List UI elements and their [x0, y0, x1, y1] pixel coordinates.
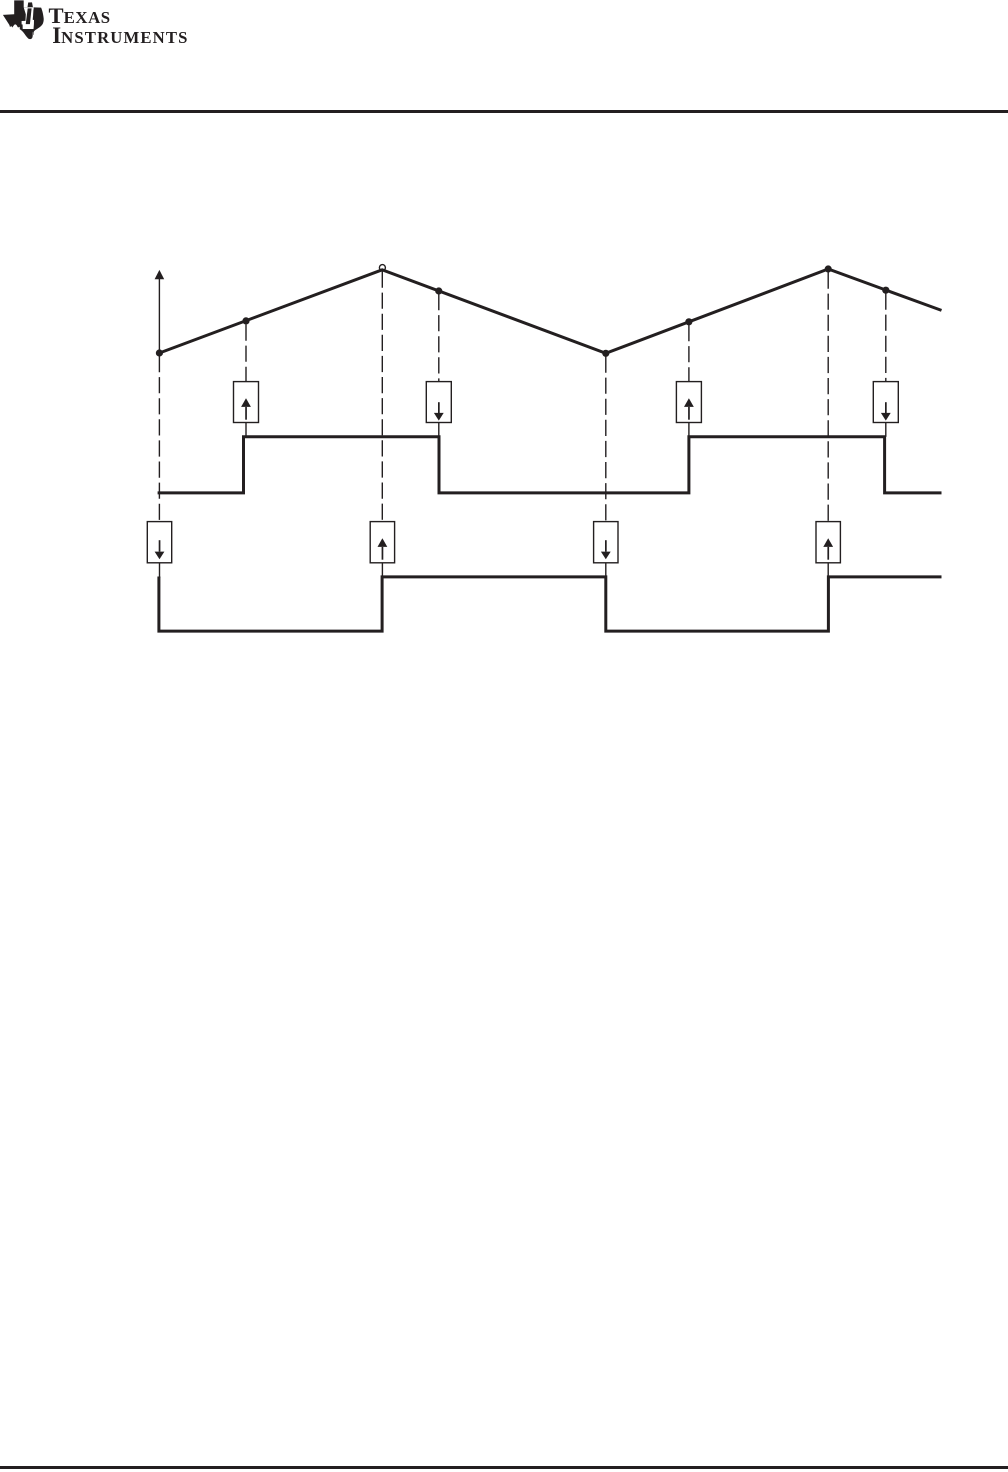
connector below t3 box	[438, 423, 440, 437]
dashed timing line at t3 (x=438.8)	[438, 294, 440, 381]
Texas state silhouette	[3, 0, 44, 39]
sample dot at t3 on ramp	[435, 287, 442, 294]
edge marker boxes row 2 (PWM B)	[147, 522, 840, 563]
sample dot at t1 on ramp	[242, 317, 249, 324]
black i dot	[28, 2, 33, 7]
dashed timing line at t1 (x=246)	[245, 325, 247, 382]
footer rule	[0, 1466, 1008, 1469]
dashed timing line at t2 peak (x=382.3)	[381, 272, 383, 522]
down arrow in t0 box	[155, 540, 165, 559]
up arrow in t6 box	[823, 538, 833, 560]
down arrow in t4 box	[601, 540, 611, 559]
connector below t1 box	[245, 423, 247, 437]
dashed timing line at t6 peak (x=828.2)	[827, 273, 829, 522]
ramp (sawtooth) waveform	[159, 269, 941, 353]
TI logo: Texas bug icon	[0, 0, 200, 50]
edge marker boxes row 1 (PWM A)	[234, 382, 899, 423]
dashed timing line at t7 (x=885.8)	[885, 294, 887, 382]
fall marker box at t0	[147, 522, 171, 563]
down arrow in t7 box	[881, 402, 891, 420]
sample dot at t0 on ramp	[156, 349, 163, 356]
rise marker box at t2	[370, 522, 394, 563]
sample dot at t6 peak on ramp	[825, 265, 832, 272]
fall marker box at t4	[594, 522, 618, 563]
rise marker box at t5	[676, 382, 701, 423]
black i stem	[26, 8, 32, 24]
up arrow in t1 box	[241, 398, 251, 419]
sample dot at t5 on ramp	[685, 318, 692, 325]
connector below t5 box	[688, 423, 690, 437]
connector below t0 box	[159, 563, 161, 578]
TEXAS INSTRUMENTS wordmark	[0, 0, 260, 60]
up arrow in t2 box	[378, 538, 388, 560]
up arrow in t5 box	[684, 398, 694, 419]
sample dot at t4 valley on ramp	[602, 350, 609, 357]
rise marker box at t6	[816, 522, 840, 563]
rise marker box at t1	[234, 382, 259, 423]
white t-letter carve channel	[22, 7, 34, 29]
sample dot at t7 on ramp	[882, 287, 889, 294]
connector below t4 box	[605, 563, 607, 578]
dashed timing line at t5 (x=688.9)	[688, 325, 690, 381]
connector below t7 box	[885, 423, 887, 437]
down arrow in t3 box	[434, 402, 444, 420]
fall marker box at t7	[873, 382, 898, 423]
connector below t6 box	[827, 563, 829, 578]
vertical axis with arrowhead	[155, 270, 165, 353]
PWM waveform B (lower square wave)	[159, 577, 942, 632]
fall marker box at t3	[426, 382, 451, 423]
dashed timing line at t0 (x=159.4)	[158, 356, 160, 521]
open circle at t2 peak	[379, 265, 385, 271]
connector below t2 box	[381, 563, 383, 578]
PWM waveform A (upper square wave)	[158, 437, 942, 493]
header rule	[0, 110, 1008, 113]
dashed timing line at t4 valley (x=605.8)	[605, 357, 607, 522]
